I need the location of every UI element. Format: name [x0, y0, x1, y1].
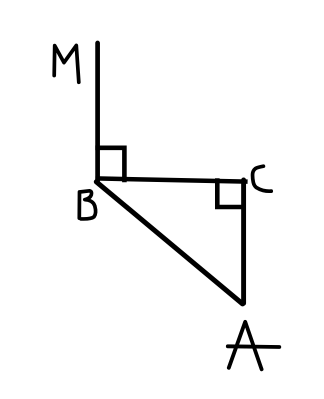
label M: [54, 45, 79, 82]
right-angle marker at B: [98, 148, 125, 180]
wire segment BC (horizontal): [95, 178, 247, 181]
wire segment BA (hypotenuse diagonal): [96, 182, 242, 304]
wire segment CA (vertical from C down to A): [241, 180, 246, 303]
label B: [79, 191, 95, 219]
label C: [253, 166, 272, 191]
label A: [229, 322, 262, 370]
right-angle marker at C: [217, 181, 243, 208]
wire ray BM (vertical line from B upward): [95, 43, 100, 181]
